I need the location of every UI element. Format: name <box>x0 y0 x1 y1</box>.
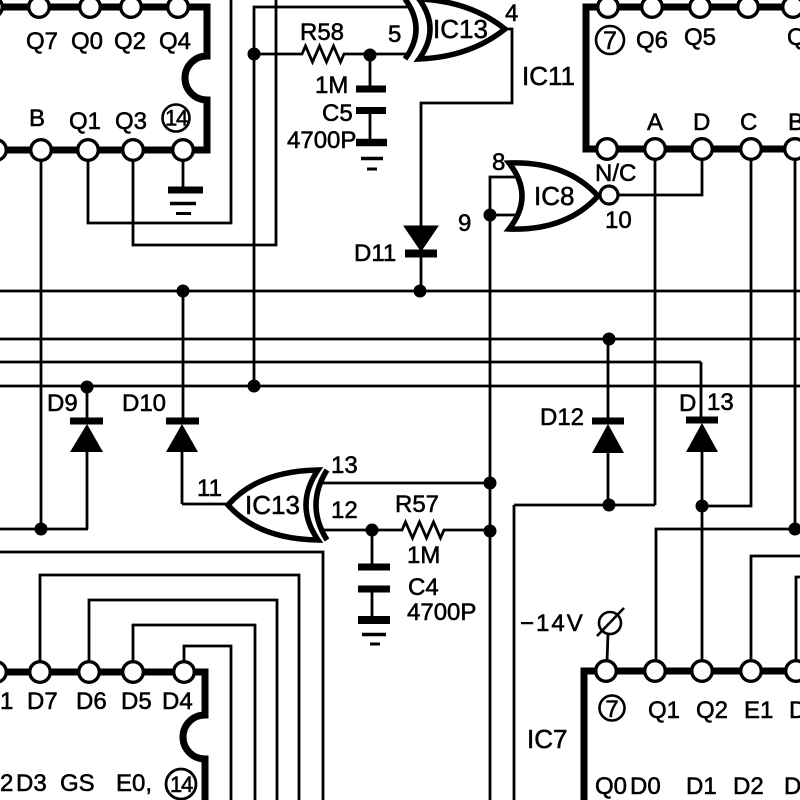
node junction R57 right <box>484 525 497 538</box>
pin IC7 3 (Q2) <box>692 661 713 682</box>
pin topleft t3 <box>121 0 142 17</box>
svg-text:IC13: IC13 <box>245 490 300 520</box>
xor-gate U: IC13 top body <box>419 0 505 59</box>
svg-text:D: D <box>784 773 800 800</box>
svg-text:11: 11 <box>197 475 222 502</box>
ic U IC7 body <box>584 671 800 800</box>
ground under C4 <box>358 620 390 644</box>
svg-text:IC11: IC11 <box>522 61 575 91</box>
svg-text:D3: D3 <box>16 770 47 797</box>
pin bottomleft 0 <box>0 662 6 683</box>
capacitor C5 <box>356 55 386 140</box>
node junction C4 top <box>366 524 379 537</box>
wire outer nested from left edge <box>0 552 323 800</box>
svg-text:D10: D10 <box>122 390 166 417</box>
pin IC11 t1 <box>598 0 619 17</box>
svg-text:13: 13 <box>331 452 358 479</box>
node junction D12 anode <box>603 499 616 512</box>
svg-text:D: D <box>693 109 710 136</box>
ic U bottomleft body <box>0 672 205 800</box>
wire vertical x514 to bottom <box>513 505 516 800</box>
pin IC7 4 (E1) <box>741 661 762 682</box>
pin label circled 7 (IC7) <box>600 696 625 724</box>
svg-text:Q7: Q7 <box>26 28 58 55</box>
svg-text:Q3: Q3 <box>115 108 147 135</box>
svg-text:1M: 1M <box>407 542 440 569</box>
pin topleft t2 <box>80 0 101 17</box>
svg-text:7: 7 <box>605 696 618 723</box>
wire bus line 4 <box>0 385 800 388</box>
node junction D12 on bus 2 <box>603 333 616 346</box>
wire bus line 1 <box>0 290 800 293</box>
svg-text:Q2: Q2 <box>696 697 728 724</box>
or-gate U: IC8 body <box>509 163 598 229</box>
node junction D10 on bus 1 <box>177 285 190 298</box>
svg-text:Q1: Q1 <box>648 697 680 724</box>
svg-text:D: D <box>789 697 800 724</box>
wire IC8 input bracket pins 8,9 <box>490 177 517 215</box>
pin IC11 t2 <box>642 0 663 17</box>
node junction pin9 <box>484 209 497 222</box>
svg-text:E0,: E0, <box>116 770 152 797</box>
svg-text:12: 12 <box>331 497 358 524</box>
pin IC11 t4 <box>738 0 759 17</box>
ground under C5 <box>356 143 387 170</box>
svg-text:14: 14 <box>165 106 188 131</box>
ground under pin 14 <box>168 159 203 214</box>
wire from pin D7 <box>40 575 299 800</box>
svg-text:B: B <box>788 109 800 136</box>
svg-text:D2: D2 <box>733 773 764 800</box>
pin IC11 b3 (D) <box>692 139 713 160</box>
svg-text:4: 4 <box>505 0 518 27</box>
pin IC7 2 (Q1) <box>645 661 666 682</box>
svg-text:N/C: N/C <box>595 160 636 187</box>
wire IC11 pin B down to y529 <box>794 158 797 529</box>
svg-text:Q1: Q1 <box>69 108 101 135</box>
svg-text:D6: D6 <box>76 688 107 715</box>
wire IC11 pin A down to 505 net <box>654 158 657 505</box>
pin topleft b1 (B) <box>31 140 52 161</box>
svg-text:D7: D7 <box>27 688 58 715</box>
svg-text:10: 10 <box>605 207 632 234</box>
svg-text:5: 5 <box>388 21 401 48</box>
wire D13 anode right and up to IC11 pin C <box>702 158 751 506</box>
wire from pin D5 <box>133 625 255 800</box>
pin topleft b2 (Q1) <box>78 140 99 161</box>
wire input 13 <box>320 482 490 485</box>
diode D10 <box>166 291 199 504</box>
pin IC11 b5 (B) <box>785 139 800 160</box>
svg-text:R57: R57 <box>395 491 439 518</box>
pin circles top row <box>0 0 193 160</box>
node junction R58 left <box>248 48 261 61</box>
svg-text:Q0: Q0 <box>71 28 103 55</box>
svg-text:E1: E1 <box>744 697 773 724</box>
svg-text:Q: Q <box>787 24 800 51</box>
pin topleft b0 <box>0 140 6 161</box>
pin label circled 14 <box>163 105 190 132</box>
node junction B/D9 wire <box>35 523 48 536</box>
svg-text:Q5: Q5 <box>684 24 716 51</box>
svg-text:7: 7 <box>603 27 617 55</box>
pin bottomleft 1 (D7) <box>30 662 51 683</box>
svg-text:C4: C4 <box>408 574 439 601</box>
svg-text:4700P: 4700P <box>287 127 356 154</box>
svg-text:IC8: IC8 <box>534 181 574 211</box>
wire horizontal to D9 bottom <box>0 528 88 531</box>
svg-text:D11: D11 <box>354 240 396 267</box>
wire IC8 output to IC11 pin D <box>619 158 702 195</box>
xor-gate IC13 top extra input arc <box>405 0 416 59</box>
wire y529 net: IC7 pin Q1 corner to right edge <box>656 529 800 671</box>
svg-text:1M: 1M <box>315 72 348 99</box>
ic U topleft body <box>0 7 207 150</box>
pin topleft t1 <box>29 0 50 17</box>
svg-text:D: D <box>679 390 696 417</box>
pin topleft b3 (Q3) <box>123 140 144 161</box>
svg-text:Q2: Q2 <box>114 28 146 55</box>
svg-text:D1: D1 <box>686 773 717 800</box>
pin bottomleft 2 (D6) <box>79 662 100 683</box>
wire IC8 pin9 net vertical down <box>489 215 492 800</box>
svg-text:14: 14 <box>170 772 193 797</box>
node junction D11 on bus 1 <box>414 285 427 298</box>
wire from pin B down <box>40 159 43 529</box>
svg-text:D0: D0 <box>630 773 661 800</box>
svg-text:IC7: IC7 <box>527 724 567 754</box>
svg-text:2: 2 <box>0 770 13 797</box>
wire from pin D6 <box>89 600 277 800</box>
svg-text:Q0: Q0 <box>595 773 627 800</box>
node junction D13 anode <box>696 500 709 513</box>
wire horizontal 505 net (D12 anode) <box>514 504 655 507</box>
ic U IC11 body <box>586 7 800 149</box>
pin IC11 t3 <box>690 0 711 17</box>
pin label circled 7 <box>596 26 624 55</box>
diode D13 (fed from bus 3 corner) <box>686 362 718 662</box>
wire phase symbol to pin <box>607 634 608 662</box>
svg-text:Q6: Q6 <box>636 27 668 54</box>
svg-text:R58: R58 <box>300 19 344 46</box>
xor-gate IC13 bottom extra input arc <box>316 470 327 540</box>
diode D9 <box>70 387 103 529</box>
pin bottomleft 3 (D5) <box>123 662 144 683</box>
svg-text:1: 1 <box>0 688 13 715</box>
resistor R58 <box>254 46 409 62</box>
pin IC7 1 <box>596 661 617 682</box>
pin IC7 5 (D) <box>786 661 800 682</box>
svg-text:D12: D12 <box>540 404 584 431</box>
symbol phase circle slash <box>597 608 624 636</box>
pin IC11 b4 (C) <box>741 139 762 160</box>
pin IC11 b1 (N/C) <box>597 139 618 160</box>
diode D12 <box>592 339 624 505</box>
pin topleft t4 <box>168 0 189 17</box>
svg-text:B: B <box>29 105 45 132</box>
bubble IC8 output N/C pin 10 <box>600 186 618 204</box>
svg-text:C5: C5 <box>322 100 353 127</box>
svg-text:A: A <box>647 109 663 136</box>
pin IC11 b2 (A) <box>645 139 666 160</box>
svg-text:D5: D5 <box>121 688 152 715</box>
wire R58 net vertical and top feed to gate <box>254 7 409 386</box>
node junction R58 right / C5 top <box>364 49 377 62</box>
svg-text:Q4: Q4 <box>159 28 191 55</box>
node junction input13/pin9 net <box>484 477 497 490</box>
svg-text:9: 9 <box>458 210 471 237</box>
wire gate output to D10 <box>182 503 228 506</box>
svg-text:8: 8 <box>492 149 505 176</box>
node junction on y529 at right <box>789 523 800 536</box>
pin topleft t0 <box>0 0 2 17</box>
wire IC7 pin D up stub to edge <box>796 577 800 662</box>
svg-text:−14V: −14V <box>520 610 585 637</box>
svg-text:GS: GS <box>60 770 95 797</box>
capacitor C4 <box>358 530 390 617</box>
node junction D9 on bus 4 <box>81 381 94 394</box>
svg-text:4700P: 4700P <box>407 599 476 626</box>
node junction R58 net on bus 4 <box>248 380 261 393</box>
pin IC11 t5 <box>783 0 800 17</box>
wire input 12 with resistor R57 <box>320 522 490 538</box>
wire bus line 3 <box>0 361 701 364</box>
xor-gate IC13 top output wire to D11 <box>421 29 512 228</box>
xor-gate U: IC13 bottom body <box>228 470 318 540</box>
svg-text:C: C <box>740 109 757 136</box>
svg-text:D4: D4 <box>162 688 193 715</box>
pin topleft b4 (14) <box>173 140 194 161</box>
wire from pin D4 <box>184 646 231 800</box>
wire bus line 2 <box>0 338 800 341</box>
diode D11 <box>404 226 438 291</box>
svg-text:IC13: IC13 <box>433 14 488 44</box>
wire from pin Q3 down right up <box>133 0 276 245</box>
svg-text:D9: D9 <box>47 390 78 417</box>
pin bottomleft 4 (D4) <box>174 662 195 683</box>
pin label circled 14 bottom <box>166 769 196 799</box>
wire from pin Q1 down right up <box>88 0 231 223</box>
svg-text:13: 13 <box>707 389 734 416</box>
wire IC7 pin E1 up and right to edge <box>751 556 800 662</box>
